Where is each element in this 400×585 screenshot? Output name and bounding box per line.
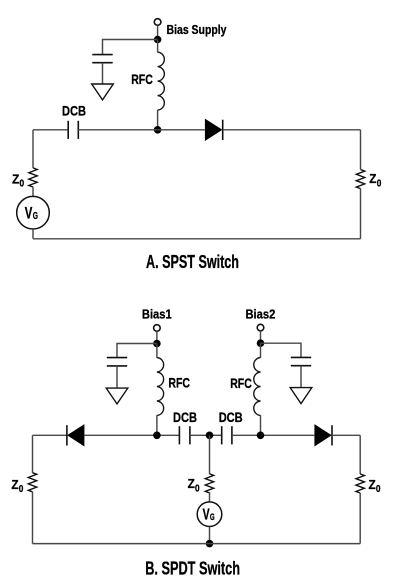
svg-text:DCB: DCB	[219, 409, 243, 425]
diode D1 (series)	[205, 119, 223, 141]
node: center junction (B)	[206, 432, 214, 440]
wire left lower (B)	[32, 492, 34, 544]
wire center node down	[209, 435, 211, 474]
capacitor bypass (A)	[92, 55, 112, 63]
source VG (B)	[197, 502, 222, 527]
wire Bias1 terminal to node	[156, 331, 158, 343]
svg-text:RFC: RFC	[168, 375, 190, 391]
svg-text:Bias2: Bias2	[246, 306, 276, 321]
wire cap to ground (B right)	[300, 366, 302, 388]
wire terminal to bias node	[157, 25, 159, 39]
svg-text:Bias Supply: Bias Supply	[167, 23, 227, 37]
svg-text:Z: Z	[11, 477, 18, 492]
inductor RFC (B right)	[254, 358, 261, 416]
capacitor bypass (B right)	[291, 357, 311, 365]
label Z0 (A right)	[369, 171, 381, 189]
svg-text:0: 0	[377, 178, 382, 189]
label Z0 (B center)	[188, 476, 200, 494]
wire bottom (B)	[33, 543, 361, 545]
resistor Z0 (B left)	[28, 473, 36, 492]
ground (B right)	[290, 388, 312, 404]
inductor RFC (B left)	[157, 358, 164, 416]
svg-text:0: 0	[20, 179, 25, 190]
terminal: Bias2	[257, 324, 264, 331]
wire right branch lower (A)	[360, 189, 362, 239]
wire bias node to bypass cap	[103, 40, 158, 55]
wire VG to bottom node	[209, 527, 211, 544]
node: bias junction	[154, 36, 162, 44]
wire VG to bottom	[32, 229, 34, 239]
diode D3 (right, pointing right)	[314, 424, 332, 446]
svg-text:0: 0	[19, 484, 24, 495]
node: bias1 junction	[153, 340, 161, 348]
svg-text:0: 0	[376, 484, 381, 495]
capacitor DCB (B right)	[222, 426, 232, 444]
wire right lower (B)	[359, 493, 361, 544]
wire RF line left segment	[33, 129, 68, 131]
wire bias1 to bypass cap	[117, 344, 157, 358]
wire left branch down	[32, 130, 34, 168]
svg-text:RFC: RFC	[131, 71, 153, 87]
svg-text:Bias1: Bias1	[142, 306, 172, 321]
wire RF line far left (B)	[33, 434, 67, 436]
svg-text:B. SPDT Switch: B. SPDT Switch	[145, 559, 240, 579]
ground (A)	[92, 84, 114, 100]
wire resistor to VG (B)	[209, 492, 211, 502]
diode D2 (left, pointing left)	[67, 424, 85, 446]
resistor Z0 (A left)	[29, 168, 37, 187]
svg-text:G: G	[210, 512, 215, 523]
wire Bias2 terminal to node	[260, 331, 262, 344]
node: bottom junction (B)	[206, 540, 214, 548]
wire between DCB caps	[190, 434, 222, 436]
svg-text:Z: Z	[188, 476, 195, 491]
svg-text:Z: Z	[369, 477, 376, 492]
wire diode to right	[223, 129, 361, 131]
terminal: Bias Supply input	[154, 19, 161, 26]
node: left junction (B)	[153, 432, 161, 440]
svg-text:DCB: DCB	[62, 102, 86, 118]
label Z0 (A left)	[12, 171, 24, 189]
label Z0 (B left)	[11, 477, 23, 495]
svg-text:A. SPST Switch: A. SPST Switch	[146, 252, 239, 272]
node: right junction (B)	[257, 432, 265, 440]
wire right diode to corner	[332, 434, 360, 436]
svg-text:Z: Z	[12, 171, 19, 186]
wire right DCB to right diode	[232, 434, 314, 436]
wire left branch down (B)	[32, 435, 34, 472]
capacitor DCB (A)	[68, 121, 78, 139]
resistor Z0 (A right)	[356, 170, 364, 189]
node: RF line junction	[154, 126, 162, 134]
wire cap to ground (B left)	[116, 366, 118, 388]
node: bias2 junction	[257, 339, 265, 347]
wire resistor to VG	[32, 187, 34, 197]
wire bottom (A)	[33, 238, 361, 240]
svg-text:Z: Z	[369, 171, 376, 186]
resistor Z0 (B center)	[205, 474, 213, 493]
svg-text:RFC: RFC	[230, 375, 252, 391]
wire bias2 to bypass cap	[261, 343, 302, 357]
svg-text:G: G	[33, 210, 38, 222]
label Z0 (B right)	[369, 477, 381, 495]
wire right branch (A)	[360, 130, 362, 170]
wire cap to ground	[102, 63, 104, 84]
inductor RFC (A)	[158, 52, 165, 110]
wire DCB to diode	[78, 129, 205, 131]
wire left diode to node1	[84, 434, 179, 436]
resistor Z0 (B right)	[356, 474, 364, 493]
capacitor bypass (B left)	[107, 358, 127, 366]
svg-text:0: 0	[195, 483, 200, 494]
source VG (A)	[17, 196, 50, 229]
svg-text:DCB: DCB	[173, 409, 197, 425]
ground (B left)	[106, 388, 128, 404]
terminal: Bias1	[154, 325, 161, 332]
capacitor DCB (B left)	[179, 426, 190, 444]
svg-text:V: V	[25, 204, 33, 223]
wire right branch down (B)	[359, 435, 361, 474]
